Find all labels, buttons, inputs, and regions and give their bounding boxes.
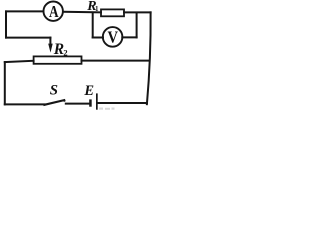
- svg-text:1: 1: [95, 5, 99, 13]
- wire bottom-left vertical: [4, 62, 6, 104]
- resistor R1: [101, 9, 124, 16]
- switch contact blob: [63, 100, 65, 102]
- battery E negative plate (short thick): [89, 99, 92, 106]
- wire ammeter to R1: [63, 11, 101, 14]
- ammeter A1: [44, 2, 63, 21]
- wire switch to battery: [66, 103, 89, 105]
- wire top-left horizontal: [6, 10, 43, 12]
- svg-text:E: E: [83, 83, 94, 99]
- battery E positive plate (long thin): [96, 93, 98, 109]
- wire rheostat right to right vertical: [82, 60, 150, 62]
- wire rheostat left to bottom-left corner: [5, 61, 34, 62]
- svg-text:S: S: [50, 82, 58, 98]
- voltmeter branch left vertical: [92, 13, 94, 38]
- wire bottom horizontal to switch: [5, 103, 45, 105]
- wire mid horizontal to slider: [6, 37, 50, 39]
- svg-text:A: A: [49, 2, 59, 21]
- voltmeter branch right vertical: [136, 13, 138, 38]
- voltmeter V1: [103, 27, 123, 47]
- voltmeter branch right horizontal: [122, 36, 136, 38]
- switch S lever: [44, 100, 64, 105]
- svg-text:2: 2: [63, 48, 67, 58]
- faint scan smudge: [99, 108, 115, 110]
- voltmeter branch left horizontal: [93, 37, 103, 39]
- wire top-left vertical: [5, 11, 7, 37]
- wire slider vertical: [49, 38, 51, 46]
- rheostat slider arrow: [48, 44, 53, 53]
- wire battery to bottom-right corner: [98, 102, 147, 104]
- wire right vertical: [147, 12, 151, 104]
- svg-text:V: V: [107, 28, 118, 47]
- wire R1 to top-right corner: [124, 11, 151, 13]
- rheostat R2 body: [34, 56, 82, 63]
